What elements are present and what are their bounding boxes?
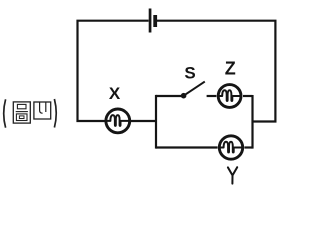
svg-text:S: S	[184, 64, 195, 83]
svg-text:Z: Z	[225, 58, 236, 78]
svg-text:X: X	[109, 84, 121, 103]
